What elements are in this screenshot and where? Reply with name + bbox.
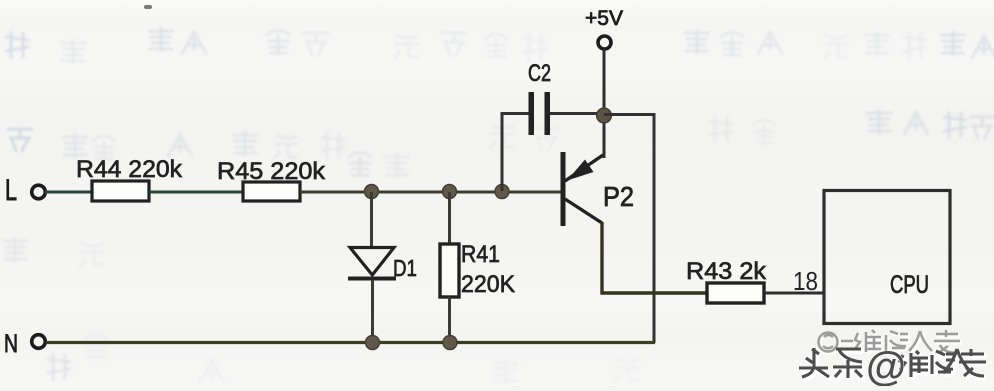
terminal L [32, 185, 46, 199]
wire emitter down and right to R43 [602, 222, 707, 293]
resistor R41 [440, 244, 459, 297]
ghost scattered left edge / bottom [3, 238, 637, 383]
wire R45 to transistor base [300, 191, 561, 194]
svg-text:P2: P2 [603, 181, 634, 212]
resistor R45 [243, 182, 300, 201]
transistor P2 [563, 152, 603, 226]
wire R44 to R45 [149, 191, 243, 194]
wire D1 to N line [371, 280, 374, 343]
svg-text:@: @ [866, 343, 906, 386]
svg-text:N: N [4, 330, 18, 358]
terminal N [32, 335, 46, 349]
node +5V junction [597, 108, 612, 123]
wire R41 to N line [448, 297, 451, 343]
speck [144, 5, 152, 9]
watermark main: toutiao 头条@维修人家 [799, 343, 988, 389]
node junction 3 [495, 185, 509, 199]
wire node3 up to C2 [502, 114, 529, 192]
svg-text:C2: C2 [528, 60, 551, 87]
node junction 1 [365, 185, 379, 199]
wire C2 to +5V rail [550, 112, 604, 115]
capacitor C2 [529, 92, 535, 135]
svg-text:L: L [5, 174, 17, 207]
wire +5V node to right branch [604, 115, 654, 344]
ghost bleed-through text row B [8, 110, 994, 177]
wire L to R44 [45, 191, 91, 194]
svg-text:+5V: +5V [585, 7, 623, 30]
ghost bleed-through text row A [6, 28, 994, 63]
wire node1 down to D1 [370, 192, 373, 248]
diode D1 [348, 248, 396, 279]
terminal +5V [598, 36, 611, 49]
svg-text:D1: D1 [393, 255, 417, 281]
svg-text:R43 2k: R43 2k [686, 258, 767, 285]
wire +5V down [603, 49, 606, 158]
svg-text:CPU: CPU [890, 271, 929, 299]
svg-text:R44 220k: R44 220k [76, 156, 183, 183]
paper background [0, 0, 1, 1]
resistor R44 [92, 181, 149, 201]
svg-text:R41: R41 [461, 241, 500, 268]
wire N line [46, 341, 655, 344]
node junction 2 [443, 185, 457, 199]
svg-text:220K: 220K [461, 271, 515, 298]
wire node2 down to R41 [448, 192, 451, 244]
node N junction 1 [366, 336, 380, 350]
wire R43 to CPU pin 18 [764, 292, 824, 295]
CPU block [824, 191, 950, 324]
watermark small: flower - 维修人家 [819, 330, 962, 355]
resistor R43 [707, 283, 764, 303]
node N junction 2 [443, 336, 457, 350]
svg-text:18: 18 [793, 266, 818, 296]
